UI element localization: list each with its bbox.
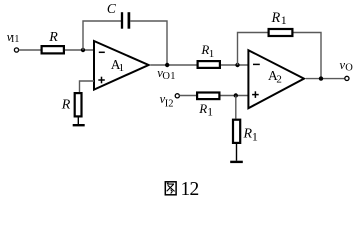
wire vI2 to R1	[180, 95, 197, 97]
terminal vO	[345, 76, 349, 80]
resistor R (noninverting to ground)	[75, 93, 82, 116]
wire capacitor right to corner	[130, 21, 167, 65]
caption character tu (figure)	[165, 182, 176, 195]
node vO1	[165, 63, 169, 67]
wire R1 to ground	[236, 144, 238, 161]
svg-text:R: R	[61, 97, 71, 112]
wire node down to R1	[235, 96, 237, 119]
wire A2 output	[306, 78, 344, 80]
wire A1 noninverting input	[80, 81, 95, 93]
capacitor C	[122, 12, 129, 29]
terminal vI2	[175, 94, 179, 98]
svg-text:C: C	[107, 1, 117, 16]
svg-text:R: R	[48, 30, 58, 45]
resistor R1 (vI2 input)	[197, 93, 219, 100]
label R1 (feedback)	[271, 10, 287, 27]
svg-text:I1: I1	[11, 34, 19, 45]
wire A1 output	[151, 64, 197, 66]
svg-text:1: 1	[119, 62, 125, 74]
node at A2 noninverting input	[234, 93, 238, 97]
wire R to A1 inverting input	[65, 49, 94, 51]
svg-text:R: R	[198, 101, 207, 116]
node at A2 inverting input	[235, 63, 239, 67]
terminal vI1	[14, 48, 18, 52]
label R1 (right of grounding resistor)	[243, 127, 258, 144]
wire node up to A2 feedback	[238, 33, 269, 66]
ground (A1 noninverting)	[73, 124, 85, 126]
label R1 (coupling resistor)	[200, 42, 214, 60]
svg-text:1: 1	[281, 13, 287, 27]
wire R to ground	[77, 118, 79, 125]
node at A1 inverting input	[81, 48, 85, 52]
svg-text:2: 2	[276, 73, 282, 85]
svg-text:1: 1	[209, 48, 215, 60]
ground (A2 noninverting)	[230, 161, 243, 163]
wire R1 to A2 inverting input	[221, 64, 248, 66]
wire R1 to A2 noninverting input	[221, 95, 249, 97]
resistor R1 (A2 feedback)	[269, 29, 293, 36]
op-amp A1	[94, 41, 149, 90]
label vO	[340, 58, 354, 74]
label vI1	[7, 30, 20, 45]
svg-text:O1: O1	[162, 71, 175, 82]
label R1 (below vI2 resistor)	[198, 101, 213, 118]
resistor R1 (A1 output to A2 inverting)	[198, 61, 220, 68]
svg-text:1: 1	[252, 129, 258, 143]
wire vI1 to R	[19, 49, 41, 51]
svg-text:1: 1	[207, 106, 213, 118]
label vO1	[157, 66, 176, 82]
svg-text:O: O	[345, 62, 353, 73]
op-amp A2	[248, 50, 304, 108]
svg-text:R: R	[271, 10, 281, 26]
resistor R (input)	[42, 46, 64, 53]
resistor R1 (noninverting to ground)	[233, 120, 240, 143]
wire R1 feedback right	[294, 33, 322, 79]
svg-text:12: 12	[181, 179, 199, 200]
label vI2	[160, 92, 174, 109]
node at A2 output	[319, 76, 323, 80]
wire node up to feedback	[83, 21, 121, 50]
svg-text:I2: I2	[165, 99, 174, 110]
